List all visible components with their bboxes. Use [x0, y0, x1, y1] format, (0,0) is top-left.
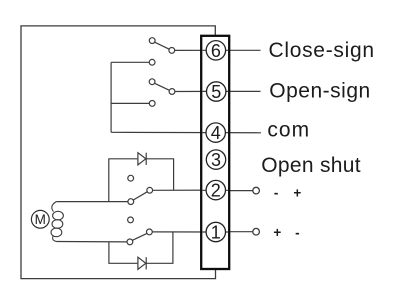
- terminal 4: [206, 123, 225, 143]
- switch S3 throw contact: [147, 187, 153, 193]
- label Open shut: [261, 154, 361, 177]
- svg-text:4: 4: [211, 123, 221, 143]
- node term2 open terminal: [253, 187, 260, 194]
- diode D1 loop wire: [109, 159, 174, 202]
- diode D2 loop wire: [109, 232, 173, 263]
- svg-text:-: -: [274, 186, 279, 201]
- svg-text:Open shut: Open shut: [261, 154, 361, 177]
- switch S4 pole contact: [127, 239, 133, 245]
- wire term4 right lead: [216, 132, 261, 134]
- terminal block: [201, 36, 229, 269]
- terminal 3: [206, 150, 225, 170]
- terminal 5: [207, 82, 226, 102]
- label plus term2: [293, 186, 301, 201]
- switch S4 arm: [132, 233, 147, 240]
- label com: [267, 119, 310, 142]
- svg-text:+: +: [293, 186, 301, 201]
- svg-text:2: 2: [211, 181, 221, 201]
- wire motor bottom to switch S4 pole: [57, 241, 128, 243]
- switch S1 arm: [155, 42, 170, 49]
- switch S1 lower contact: [149, 59, 155, 65]
- switch S2 lower contact: [149, 101, 155, 107]
- wire term1 right lead: [216, 231, 253, 233]
- terminal 2: [206, 180, 225, 200]
- wire term5 to throw: [175, 90, 216, 92]
- switch S3 arm: [133, 192, 147, 200]
- switch S4 throw contact: [147, 229, 153, 235]
- switch S2 arm: [155, 83, 170, 90]
- svg-text:M: M: [35, 212, 46, 227]
- switch S2 pivot contact: [149, 79, 155, 85]
- svg-text:Open-sign: Open-sign: [269, 79, 370, 102]
- motor M body: [31, 210, 49, 228]
- com bus vertical wire: [110, 62, 112, 132]
- switch S1 throw contact: [169, 48, 175, 54]
- wire com bus to term4: [111, 131, 216, 133]
- re-draw wires inside block: [202, 50, 228, 232]
- switch S3 spare contact: [128, 175, 134, 181]
- diode D1: [138, 153, 146, 165]
- svg-text:Close-sign: Close-sign: [269, 39, 375, 62]
- motor M winding: [51, 202, 63, 242]
- svg-text:3: 3: [211, 150, 221, 170]
- diode D2: [138, 257, 146, 269]
- svg-text:-: -: [295, 225, 300, 240]
- enclosure border: [21, 26, 216, 279]
- switch S3 pole contact: [128, 199, 134, 205]
- wire term5 right lead: [216, 90, 261, 92]
- svg-text:5: 5: [211, 82, 221, 102]
- node term1 open terminal: [253, 228, 260, 235]
- switch S4 spare contact: [128, 217, 134, 223]
- terminal 6: [206, 41, 225, 61]
- svg-text:+: +: [273, 225, 281, 240]
- svg-text:6: 6: [211, 41, 221, 61]
- svg-text:1: 1: [211, 223, 221, 243]
- wire term6 right lead: [216, 49, 261, 51]
- label Open-sign: [269, 79, 370, 102]
- svg-text:com: com: [267, 119, 310, 142]
- switch S2 throw contact: [169, 89, 175, 95]
- label minus term1: [295, 225, 300, 240]
- wire term6 to throw: [175, 49, 216, 51]
- wire motor top to switch S3 pole: [56, 201, 128, 203]
- wire term2 right lead: [216, 190, 253, 192]
- wire term2 to throw: [153, 189, 217, 191]
- switch S1 pivot contact: [149, 38, 155, 44]
- wire NC contact term5 group to bus: [111, 102, 149, 104]
- label plus term1: [273, 225, 281, 240]
- terminal 1: [206, 222, 225, 242]
- wire term1 to throw: [152, 231, 216, 233]
- label minus term2: [274, 186, 279, 201]
- wire NC contact term6 group to bus: [111, 61, 149, 63]
- label Close-sign: [269, 39, 375, 62]
